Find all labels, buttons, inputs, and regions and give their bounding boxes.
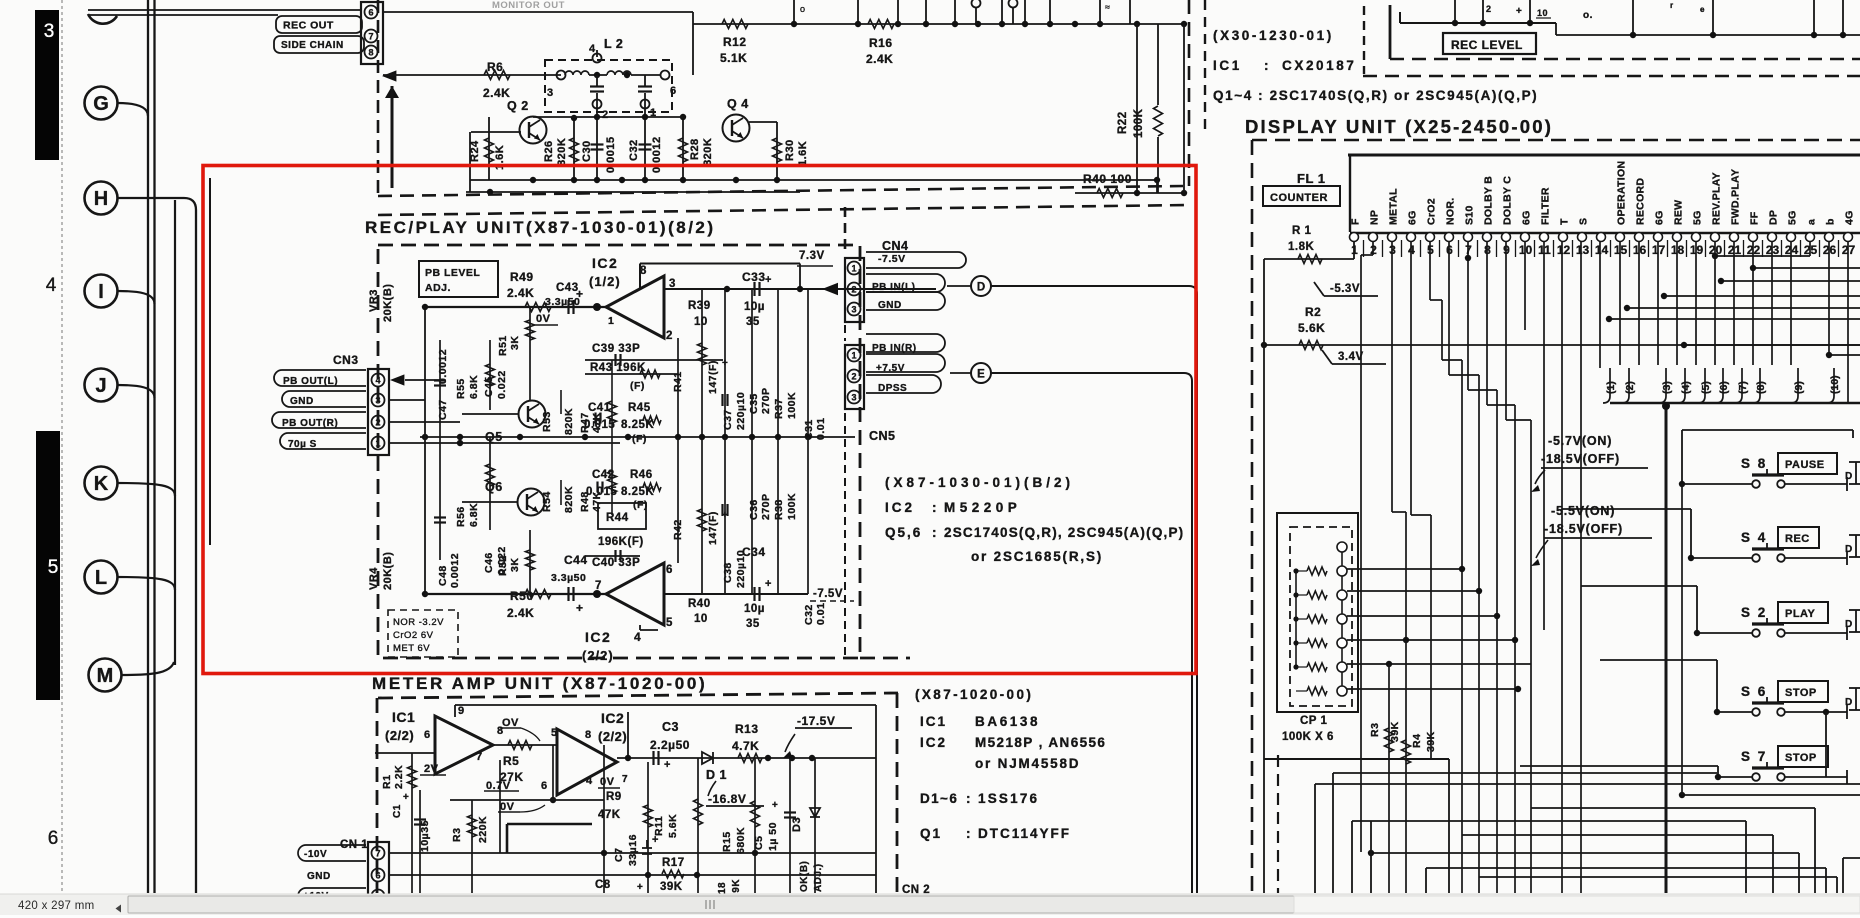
svg-text::: : [932, 525, 937, 540]
svg-text:R15: R15 [721, 831, 733, 852]
svg-text:(1): (1) [1605, 381, 1617, 394]
svg-text:6: 6 [375, 871, 380, 881]
svg-text:-7.5V: -7.5V [878, 253, 906, 265]
svg-text:Q 4: Q 4 [727, 97, 749, 111]
svg-text:R1: R1 [381, 775, 393, 789]
svg-text:E: E [977, 369, 985, 381]
svg-text:PAUSE: PAUSE [1785, 459, 1825, 471]
svg-text:R9: R9 [606, 791, 622, 803]
svg-text:C36: C36 [748, 499, 760, 520]
svg-text:R40 100: R40 100 [1083, 172, 1132, 186]
svg-text:R26: R26 [543, 140, 555, 162]
svg-text:IC2: IC2 [885, 500, 915, 515]
svg-text:+: + [664, 759, 671, 771]
svg-text:3K: 3K [509, 558, 521, 572]
svg-text:10µ: 10µ [744, 603, 765, 615]
svg-text:.9K: .9K [731, 879, 742, 896]
svg-text:REW: REW [1673, 200, 1685, 225]
svg-text:10µ: 10µ [744, 301, 765, 313]
svg-text:G: G [93, 93, 109, 115]
svg-text::: : [932, 500, 937, 515]
svg-text:S 8: S 8 [1741, 456, 1767, 471]
svg-text:PB LEVEL: PB LEVEL [425, 267, 480, 279]
svg-text:+: + [765, 274, 772, 286]
svg-text:C41: C41 [588, 402, 611, 414]
svg-text:3K: 3K [509, 336, 521, 350]
svg-text:T: T [1559, 218, 1571, 225]
svg-text:6.8K: 6.8K [468, 503, 480, 527]
svg-text:L: L [95, 567, 107, 589]
svg-text:+: + [1516, 6, 1522, 17]
svg-text:D1~6: D1~6 [920, 791, 958, 806]
svg-text:4G: 4G [1844, 210, 1856, 225]
svg-text:DTC114YFF: DTC114YFF [978, 826, 1071, 841]
svg-text:7: 7 [622, 774, 628, 785]
svg-text:or NJM4558D: or NJM4558D [975, 756, 1080, 771]
svg-text:39K: 39K [1389, 721, 1401, 742]
svg-text:47K: 47K [598, 809, 621, 821]
svg-text:REC/PLAY UNIT(X87-1030-01)(8/2: REC/PLAY UNIT(X87-1030-01)(8/2) [365, 218, 716, 237]
svg-text:D 1: D 1 [706, 768, 727, 782]
svg-text:(7): (7) [1737, 381, 1749, 394]
svg-text:M5218P , AN6556: M5218P , AN6556 [975, 735, 1106, 750]
svg-text:1: 1 [608, 315, 614, 327]
svg-text:DISPLAY UNIT (X25-2450-00): DISPLAY UNIT (X25-2450-00) [1245, 116, 1553, 137]
svg-text::: : [966, 826, 971, 841]
svg-text:5.6K: 5.6K [1298, 321, 1325, 335]
svg-text:(F): (F) [630, 380, 645, 392]
svg-text:R2: R2 [1305, 305, 1321, 319]
svg-text:METAL: METAL [1388, 188, 1400, 225]
svg-text:R16: R16 [869, 36, 893, 50]
svg-text:-7.5V: -7.5V [813, 588, 843, 600]
svg-text:196K(F): 196K(F) [598, 536, 644, 548]
svg-text:BA6138: BA6138 [975, 714, 1040, 729]
svg-text:10: 10 [694, 316, 708, 328]
svg-text:2.4K: 2.4K [866, 52, 893, 66]
svg-text:8: 8 [585, 729, 592, 741]
svg-text:R45: R45 [628, 402, 651, 414]
svg-text:R17: R17 [662, 857, 685, 869]
svg-text:5: 5 [666, 617, 673, 629]
svg-text:6: 6 [424, 729, 431, 741]
svg-text:10: 10 [1537, 8, 1548, 18]
svg-text:820K: 820K [702, 138, 714, 166]
svg-text:2: 2 [375, 418, 380, 428]
svg-text:8: 8 [640, 265, 647, 277]
svg-text:DP: DP [1768, 210, 1780, 225]
svg-text:CP 1: CP 1 [1300, 715, 1327, 727]
svg-text:420 x 297 mm: 420 x 297 mm [18, 900, 94, 912]
svg-text:R56: R56 [455, 506, 467, 527]
svg-text:C35: C35 [748, 393, 760, 414]
svg-text:R30: R30 [784, 139, 796, 161]
svg-text:39K: 39K [660, 881, 683, 893]
svg-text:NOR -3.2V: NOR -3.2V [393, 617, 444, 628]
svg-text:0.0012: 0.0012 [437, 349, 449, 384]
svg-text:CrO2: CrO2 [1426, 198, 1438, 225]
svg-text:1µ 50: 1µ 50 [767, 822, 779, 851]
svg-text:Q1~4 : 2SC1740S(Q,R) or 2SC9: Q1~4 : 2SC1740S(Q,R) or 2SC945(A)(Q,P) [1213, 88, 1538, 103]
svg-text:47K: 47K [591, 412, 603, 433]
svg-text:K: K [94, 473, 109, 495]
svg-text:≈: ≈ [1105, 2, 1110, 12]
svg-text:5: 5 [48, 557, 59, 578]
svg-text:C32: C32 [803, 604, 815, 625]
svg-text:4: 4 [375, 376, 380, 386]
svg-text:(6): (6) [1718, 381, 1730, 394]
svg-text:6: 6 [670, 85, 677, 97]
svg-text:b: b [1825, 218, 1837, 225]
svg-text:-18.5V(OFF): -18.5V(OFF) [1544, 522, 1623, 536]
svg-text:0V: 0V [536, 313, 551, 325]
svg-text:-17.5V: -17.5V [797, 714, 835, 728]
svg-text:R24: R24 [469, 140, 481, 162]
svg-text:147(F): 147(F) [707, 511, 719, 545]
svg-text:R22: R22 [1117, 111, 1129, 134]
svg-text:CN4: CN4 [882, 239, 909, 253]
svg-text:6G: 6G [1654, 210, 1666, 225]
svg-text:FF: FF [1749, 211, 1761, 225]
svg-text:13: 13 [1576, 243, 1590, 257]
svg-text:C34: C34 [742, 545, 766, 559]
svg-text:R49: R49 [510, 270, 534, 284]
svg-text:S10: S10 [1464, 205, 1476, 225]
svg-text:IC1: IC1 [392, 709, 415, 725]
svg-text:2: 2 [1486, 4, 1492, 14]
svg-text:IC1: IC1 [920, 714, 947, 729]
svg-text:D: D [977, 282, 985, 294]
svg-text:C45: C45 [483, 376, 495, 397]
svg-text:C39 33P: C39 33P [592, 343, 640, 355]
svg-text:e: e [1700, 5, 1705, 14]
svg-text:r: r [1670, 1, 1674, 10]
svg-text:or 2SC1685(R,S): or 2SC1685(R,S) [971, 549, 1103, 564]
svg-text:+: + [576, 601, 584, 615]
svg-text:F: F [1350, 218, 1362, 225]
svg-text:+: + [765, 578, 772, 590]
svg-text:C1: C1 [392, 804, 403, 818]
svg-text:(2/2): (2/2) [582, 648, 614, 663]
svg-text:IC1: IC1 [1213, 58, 1242, 73]
svg-text:100K X 6: 100K X 6 [1282, 731, 1334, 743]
svg-text:6G: 6G [1407, 210, 1419, 225]
svg-text:(3): (3) [1661, 381, 1673, 394]
svg-text:3: 3 [851, 305, 856, 315]
svg-text:3.3µ50: 3.3µ50 [551, 572, 586, 584]
svg-text:R46: R46 [630, 469, 653, 481]
svg-text:R37: R37 [773, 398, 785, 419]
svg-text:D: D [1845, 544, 1853, 555]
svg-text:820K: 820K [563, 486, 575, 513]
svg-text:R3: R3 [451, 828, 463, 842]
svg-text:1: 1 [375, 439, 380, 449]
svg-text:R39: R39 [688, 300, 711, 312]
svg-text:+: + [772, 800, 778, 811]
svg-text:IC2: IC2 [920, 735, 947, 750]
svg-text:OPERATION: OPERATION [1616, 161, 1628, 225]
svg-text:R47: R47 [579, 412, 591, 433]
svg-text:R53: R53 [541, 411, 553, 432]
svg-text:CrO2 6V: CrO2 6V [393, 630, 434, 641]
svg-text:C38: C38 [722, 562, 734, 583]
svg-text:820K: 820K [556, 138, 568, 166]
svg-text:Q1: Q1 [920, 826, 942, 841]
svg-text:REC: REC [1785, 533, 1810, 545]
svg-text:OK(B): OK(B) [799, 861, 810, 892]
svg-text:R 1: R 1 [1292, 225, 1312, 237]
svg-text:4: 4 [634, 630, 641, 644]
svg-text:REV.PLAY: REV.PLAY [1711, 172, 1723, 225]
svg-text:GND: GND [307, 871, 331, 882]
svg-text::: : [966, 791, 971, 806]
svg-text:STOP: STOP [1785, 687, 1817, 699]
svg-text:I: I [98, 281, 104, 303]
svg-text:FWD.PLAY: FWD.PLAY [1730, 169, 1742, 225]
svg-text:270P: 270P [760, 493, 772, 520]
svg-text:R13: R13 [735, 722, 759, 736]
svg-text:2.2K: 2.2K [393, 765, 405, 789]
svg-text:SIDE CHAIN: SIDE CHAIN [281, 40, 344, 51]
svg-text:M5220P: M5220P [944, 500, 1021, 515]
svg-text:FILTER: FILTER [1540, 187, 1552, 225]
svg-text:C44: C44 [564, 553, 588, 567]
svg-text:3: 3 [375, 396, 380, 406]
svg-text:M: M [97, 665, 114, 687]
svg-text:2: 2 [851, 372, 856, 382]
svg-text:VR3: VR3 [368, 289, 380, 312]
svg-text:5.1K: 5.1K [720, 51, 747, 65]
svg-text:12: 12 [1557, 243, 1571, 257]
svg-text:-18.5V(OFF): -18.5V(OFF) [1541, 452, 1620, 466]
svg-text:20K(B): 20K(B) [382, 552, 394, 590]
svg-text:NP: NP [1369, 210, 1381, 225]
svg-text:2SC1740S(Q,R), 2SC945(A)(Q,P): 2SC1740S(Q,R), 2SC945(A)(Q,P) [944, 525, 1184, 540]
svg-text:6: 6 [666, 564, 673, 576]
svg-text:PLAY: PLAY [1785, 608, 1815, 620]
svg-text:7: 7 [368, 32, 373, 42]
svg-text::: : [1264, 58, 1269, 73]
svg-text:CN5: CN5 [869, 429, 896, 443]
svg-text:RECORD: RECORD [1635, 178, 1647, 225]
svg-text:MONITOR OUT: MONITOR OUT [492, 0, 565, 11]
svg-text:(X87-1020-00): (X87-1020-00) [915, 687, 1033, 702]
svg-text:-5.3V: -5.3V [1330, 283, 1360, 295]
svg-text:D3: D3 [791, 817, 803, 832]
svg-text:R43 196K: R43 196K [590, 362, 646, 374]
svg-text:35: 35 [746, 316, 760, 328]
svg-text:6: 6 [48, 828, 59, 849]
svg-text:C42: C42 [592, 469, 615, 481]
svg-text:D: D [1845, 619, 1853, 630]
svg-text:270P: 270P [760, 387, 772, 414]
svg-text:R38: R38 [773, 499, 785, 520]
svg-text:2: 2 [851, 285, 856, 295]
svg-text:(5): (5) [1700, 381, 1712, 394]
svg-text:(F): (F) [632, 433, 647, 445]
svg-text:14: 14 [1595, 243, 1609, 257]
svg-text:3: 3 [44, 21, 55, 42]
svg-text:0.0012: 0.0012 [651, 136, 663, 173]
svg-text:(1/2): (1/2) [589, 274, 621, 289]
svg-text:R52: R52 [497, 555, 509, 576]
svg-text:R4: R4 [1411, 734, 1423, 748]
svg-text:4: 4 [586, 775, 593, 787]
svg-text:REC OUT: REC OUT [283, 19, 334, 31]
svg-text:220K: 220K [477, 816, 489, 843]
svg-text:Q 2: Q 2 [507, 99, 529, 113]
svg-text:L 2: L 2 [604, 37, 623, 51]
svg-text:+: + [576, 287, 584, 301]
svg-text:R11: R11 [653, 816, 665, 836]
svg-text:6: 6 [541, 780, 548, 792]
svg-text:GND: GND [290, 396, 314, 407]
svg-text:3: 3 [851, 393, 856, 403]
svg-text:7: 7 [595, 580, 602, 592]
svg-text:1.6K: 1.6K [797, 141, 809, 166]
svg-text:S 4: S 4 [1741, 530, 1767, 545]
svg-text:C48: C48 [437, 565, 449, 586]
svg-text:5G: 5G [1787, 210, 1799, 225]
svg-text:9: 9 [458, 705, 465, 717]
svg-text:REC LEVEL: REC LEVEL [1451, 38, 1523, 52]
svg-text:C33: C33 [742, 270, 766, 284]
svg-text:1.8K: 1.8K [1288, 241, 1314, 253]
svg-text:2: 2 [666, 330, 673, 342]
svg-text:1SS176: 1SS176 [978, 791, 1039, 806]
svg-text:DOLBY B: DOLBY B [1483, 176, 1495, 225]
svg-text:COUNTER: COUNTER [1270, 192, 1328, 204]
svg-text:(2/2): (2/2) [598, 729, 627, 744]
svg-text:5G: 5G [1692, 210, 1704, 225]
svg-text:o.: o. [1583, 10, 1593, 21]
svg-text:D: D [1845, 471, 1853, 482]
svg-text:S 7: S 7 [1741, 749, 1767, 764]
svg-text:4: 4 [46, 275, 57, 296]
svg-text:IC2: IC2 [592, 255, 618, 271]
svg-text:ADJ.): ADJ.) [813, 863, 824, 892]
svg-text:CN3: CN3 [333, 353, 359, 367]
svg-text:-16.8V: -16.8V [708, 792, 746, 806]
svg-text:METER AMP UNIT (X87-1020-00): METER AMP UNIT (X87-1020-00) [372, 674, 707, 693]
svg-text:R3: R3 [1369, 723, 1381, 737]
svg-text:2.2µ50: 2.2µ50 [650, 738, 690, 752]
svg-text:10: 10 [694, 613, 708, 625]
svg-text:-5.5V(ON): -5.5V(ON) [1551, 504, 1615, 518]
svg-text:R5: R5 [503, 754, 519, 768]
svg-text:3.4V: 3.4V [1338, 351, 1364, 363]
svg-text:(2/2): (2/2) [385, 728, 414, 743]
svg-text:D: D [1845, 697, 1853, 708]
svg-text:0.01: 0.01 [815, 603, 827, 625]
svg-text:(10): (10) [1829, 375, 1841, 394]
svg-text:20K(B): 20K(B) [382, 284, 394, 322]
svg-text:H: H [94, 188, 108, 210]
svg-text:(X30-1230-01): (X30-1230-01) [1213, 28, 1334, 43]
svg-text:IC2: IC2 [585, 629, 611, 645]
svg-text:820K: 820K [563, 408, 575, 435]
svg-text:R12: R12 [723, 35, 747, 49]
svg-text:S 6: S 6 [1741, 684, 1767, 699]
svg-text:39K: 39K [1425, 731, 1437, 752]
svg-text:C47: C47 [437, 399, 449, 420]
svg-text:C32: C32 [628, 139, 640, 161]
svg-text:100K: 100K [786, 392, 798, 419]
svg-text:STOP: STOP [1785, 752, 1817, 764]
svg-text:2.4K: 2.4K [507, 606, 534, 620]
svg-text:100K: 100K [786, 493, 798, 520]
svg-text:C46: C46 [483, 552, 495, 573]
svg-text:R54: R54 [541, 491, 553, 512]
svg-text:o: o [800, 4, 806, 14]
svg-text:2.4K: 2.4K [507, 286, 534, 300]
svg-text:R28: R28 [689, 138, 701, 160]
svg-text:220µ10: 220µ10 [735, 392, 747, 430]
svg-text:6G: 6G [1521, 210, 1533, 225]
svg-text:8: 8 [368, 48, 373, 58]
svg-text:VR4: VR4 [368, 567, 380, 590]
svg-text:1: 1 [851, 351, 856, 361]
svg-text:0.0015: 0.0015 [605, 136, 617, 173]
svg-text:J: J [95, 375, 106, 397]
svg-text:C8: C8 [595, 879, 611, 891]
svg-text:NOR.: NOR. [1445, 198, 1457, 225]
svg-text:IC2: IC2 [601, 710, 624, 726]
svg-text:33µ16: 33µ16 [627, 834, 639, 866]
svg-text:100K: 100K [1133, 108, 1145, 138]
svg-text:35: 35 [746, 618, 760, 630]
svg-text:(2): (2) [1624, 381, 1636, 394]
svg-text:3: 3 [547, 87, 554, 99]
svg-text:Q5,6: Q5,6 [885, 525, 922, 540]
svg-text:2: 2 [602, 109, 609, 121]
svg-text:R51: R51 [497, 335, 509, 356]
svg-text:Q5: Q5 [485, 430, 503, 444]
svg-text:(4): (4) [1680, 381, 1692, 394]
svg-text:147(F): 147(F) [707, 360, 719, 394]
svg-text:DOLBY C: DOLBY C [1502, 176, 1514, 225]
svg-text:0.022: 0.022 [496, 370, 508, 399]
svg-text:7: 7 [476, 751, 483, 763]
svg-text:(X87-1030-01)(B/2): (X87-1030-01)(B/2) [885, 475, 1074, 490]
svg-text:1: 1 [851, 264, 856, 274]
svg-text:+: + [403, 792, 409, 803]
svg-text:R44: R44 [606, 512, 629, 524]
svg-text:0V: 0V [600, 776, 615, 788]
svg-text:R55: R55 [455, 378, 467, 399]
svg-text:MET 6V: MET 6V [393, 643, 430, 654]
svg-text:a: a [1806, 219, 1818, 225]
svg-text:18: 18 [717, 882, 728, 894]
svg-text:+: + [637, 882, 643, 893]
svg-text:-10V: -10V [304, 849, 327, 860]
svg-text:Q6: Q6 [485, 480, 503, 494]
svg-text:5.6K: 5.6K [667, 814, 679, 838]
svg-text:R40: R40 [688, 598, 711, 610]
svg-text:(9): (9) [1793, 381, 1805, 394]
svg-text:C30: C30 [581, 140, 593, 162]
svg-text:ADJ.: ADJ. [425, 282, 451, 294]
svg-text:7.3V: 7.3V [799, 250, 825, 262]
svg-text:0.0012: 0.0012 [449, 553, 461, 588]
svg-text:FL 1: FL 1 [1297, 171, 1326, 186]
svg-text:6: 6 [368, 8, 373, 18]
svg-text:S 2: S 2 [1741, 605, 1767, 620]
svg-text:680K: 680K [735, 827, 747, 854]
svg-text:2.4K: 2.4K [483, 86, 510, 100]
svg-text:7: 7 [375, 849, 380, 859]
svg-text:C3: C3 [662, 720, 679, 734]
